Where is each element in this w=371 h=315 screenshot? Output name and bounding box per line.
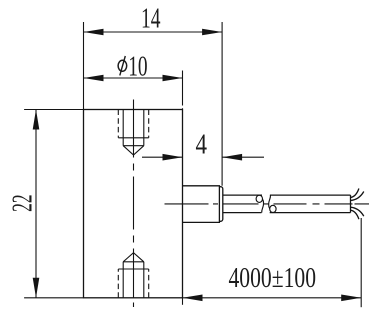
dim 4: right arrow tail: [222, 156, 264, 158]
top tapped hole: thread depth line: [118, 137, 148, 139]
cable segment 1 top line: [223, 194, 262, 196]
svg-text:14: 14: [141, 3, 161, 35]
horizontal centerline of cable: [165, 203, 370, 205]
arrowhead phi10 left: [84, 75, 104, 82]
dim 4: left arrow tail: [142, 156, 183, 158]
connector cap (rounded): [219, 187, 222, 222]
wire whisker down 2: [351, 210, 359, 219]
wire whisker down 1: [351, 207, 364, 216]
bottom tapped hole: thread depth line: [118, 268, 148, 270]
dim phi10: dimension line: [84, 77, 183, 79]
svg-text:4000±100: 4000±100: [229, 262, 317, 294]
arrowhead 14 left: [84, 29, 104, 36]
text phi10: phi symbol drawn manually: [118, 56, 127, 75]
connector block body: [183, 186, 220, 223]
bottom tapped hole: drill point cone: [123, 253, 144, 262]
cable segment 2 top line: [270, 194, 351, 196]
dim 14: dimension line: [84, 31, 223, 33]
arrowhead 4 left (points right): [163, 154, 183, 161]
bottom tapped hole: thread major dia (dashed): [118, 269, 148, 298]
top tapped hole: thread major dia (dashed): [118, 110, 148, 138]
top tapped hole: drill bottom line: [123, 145, 144, 147]
dim 22: extension bottom: [24, 297, 83, 299]
body outline (cylinder side view): [84, 110, 183, 298]
arrowhead 22 bottom: [33, 278, 40, 298]
arrowhead 4000 right: [341, 295, 361, 302]
svg-text:22: 22: [7, 194, 39, 212]
arrowhead 4 right (points left): [222, 154, 242, 161]
dim 4000: extension left (body edge extended): [182, 298, 184, 305]
dim phi10: extension right above body: [182, 71, 184, 110]
dim 4000: dimension line: [183, 297, 362, 299]
cable segment 2 bottom line: [270, 212, 351, 214]
dim 22: dimension line: [35, 110, 37, 298]
wire whisker up 2: [351, 192, 364, 201]
arrowhead phi10 right: [163, 75, 183, 82]
top tapped hole: drill point cone: [123, 146, 144, 155]
dim 4000: extension right: [360, 218, 362, 307]
cable break squiggle (left piece): [256, 195, 262, 202]
vertical centerline: [133, 100, 135, 308]
cable segment 1 bottom line: [223, 212, 262, 214]
cable break squiggle (right piece): [270, 205, 276, 212]
dim 14: extension line right: [221, 22, 223, 186]
top tapped hole: drill dia (solid): [123, 110, 144, 146]
arrowhead 22 top: [33, 110, 40, 130]
wire whisker up 1: [351, 189, 359, 198]
bottom tapped hole: drill bottom line: [123, 261, 144, 263]
dim 22: extension top: [24, 109, 83, 111]
svg-text:10: 10: [128, 51, 147, 83]
arrowhead 14 right: [202, 29, 222, 36]
cable jacket end: [350, 195, 352, 213]
bottom tapped hole: drill dia (solid): [123, 262, 144, 298]
svg-text:4: 4: [196, 129, 208, 161]
arrowhead 4000 left: [183, 295, 203, 302]
dim 14: extension line left: [83, 22, 85, 110]
